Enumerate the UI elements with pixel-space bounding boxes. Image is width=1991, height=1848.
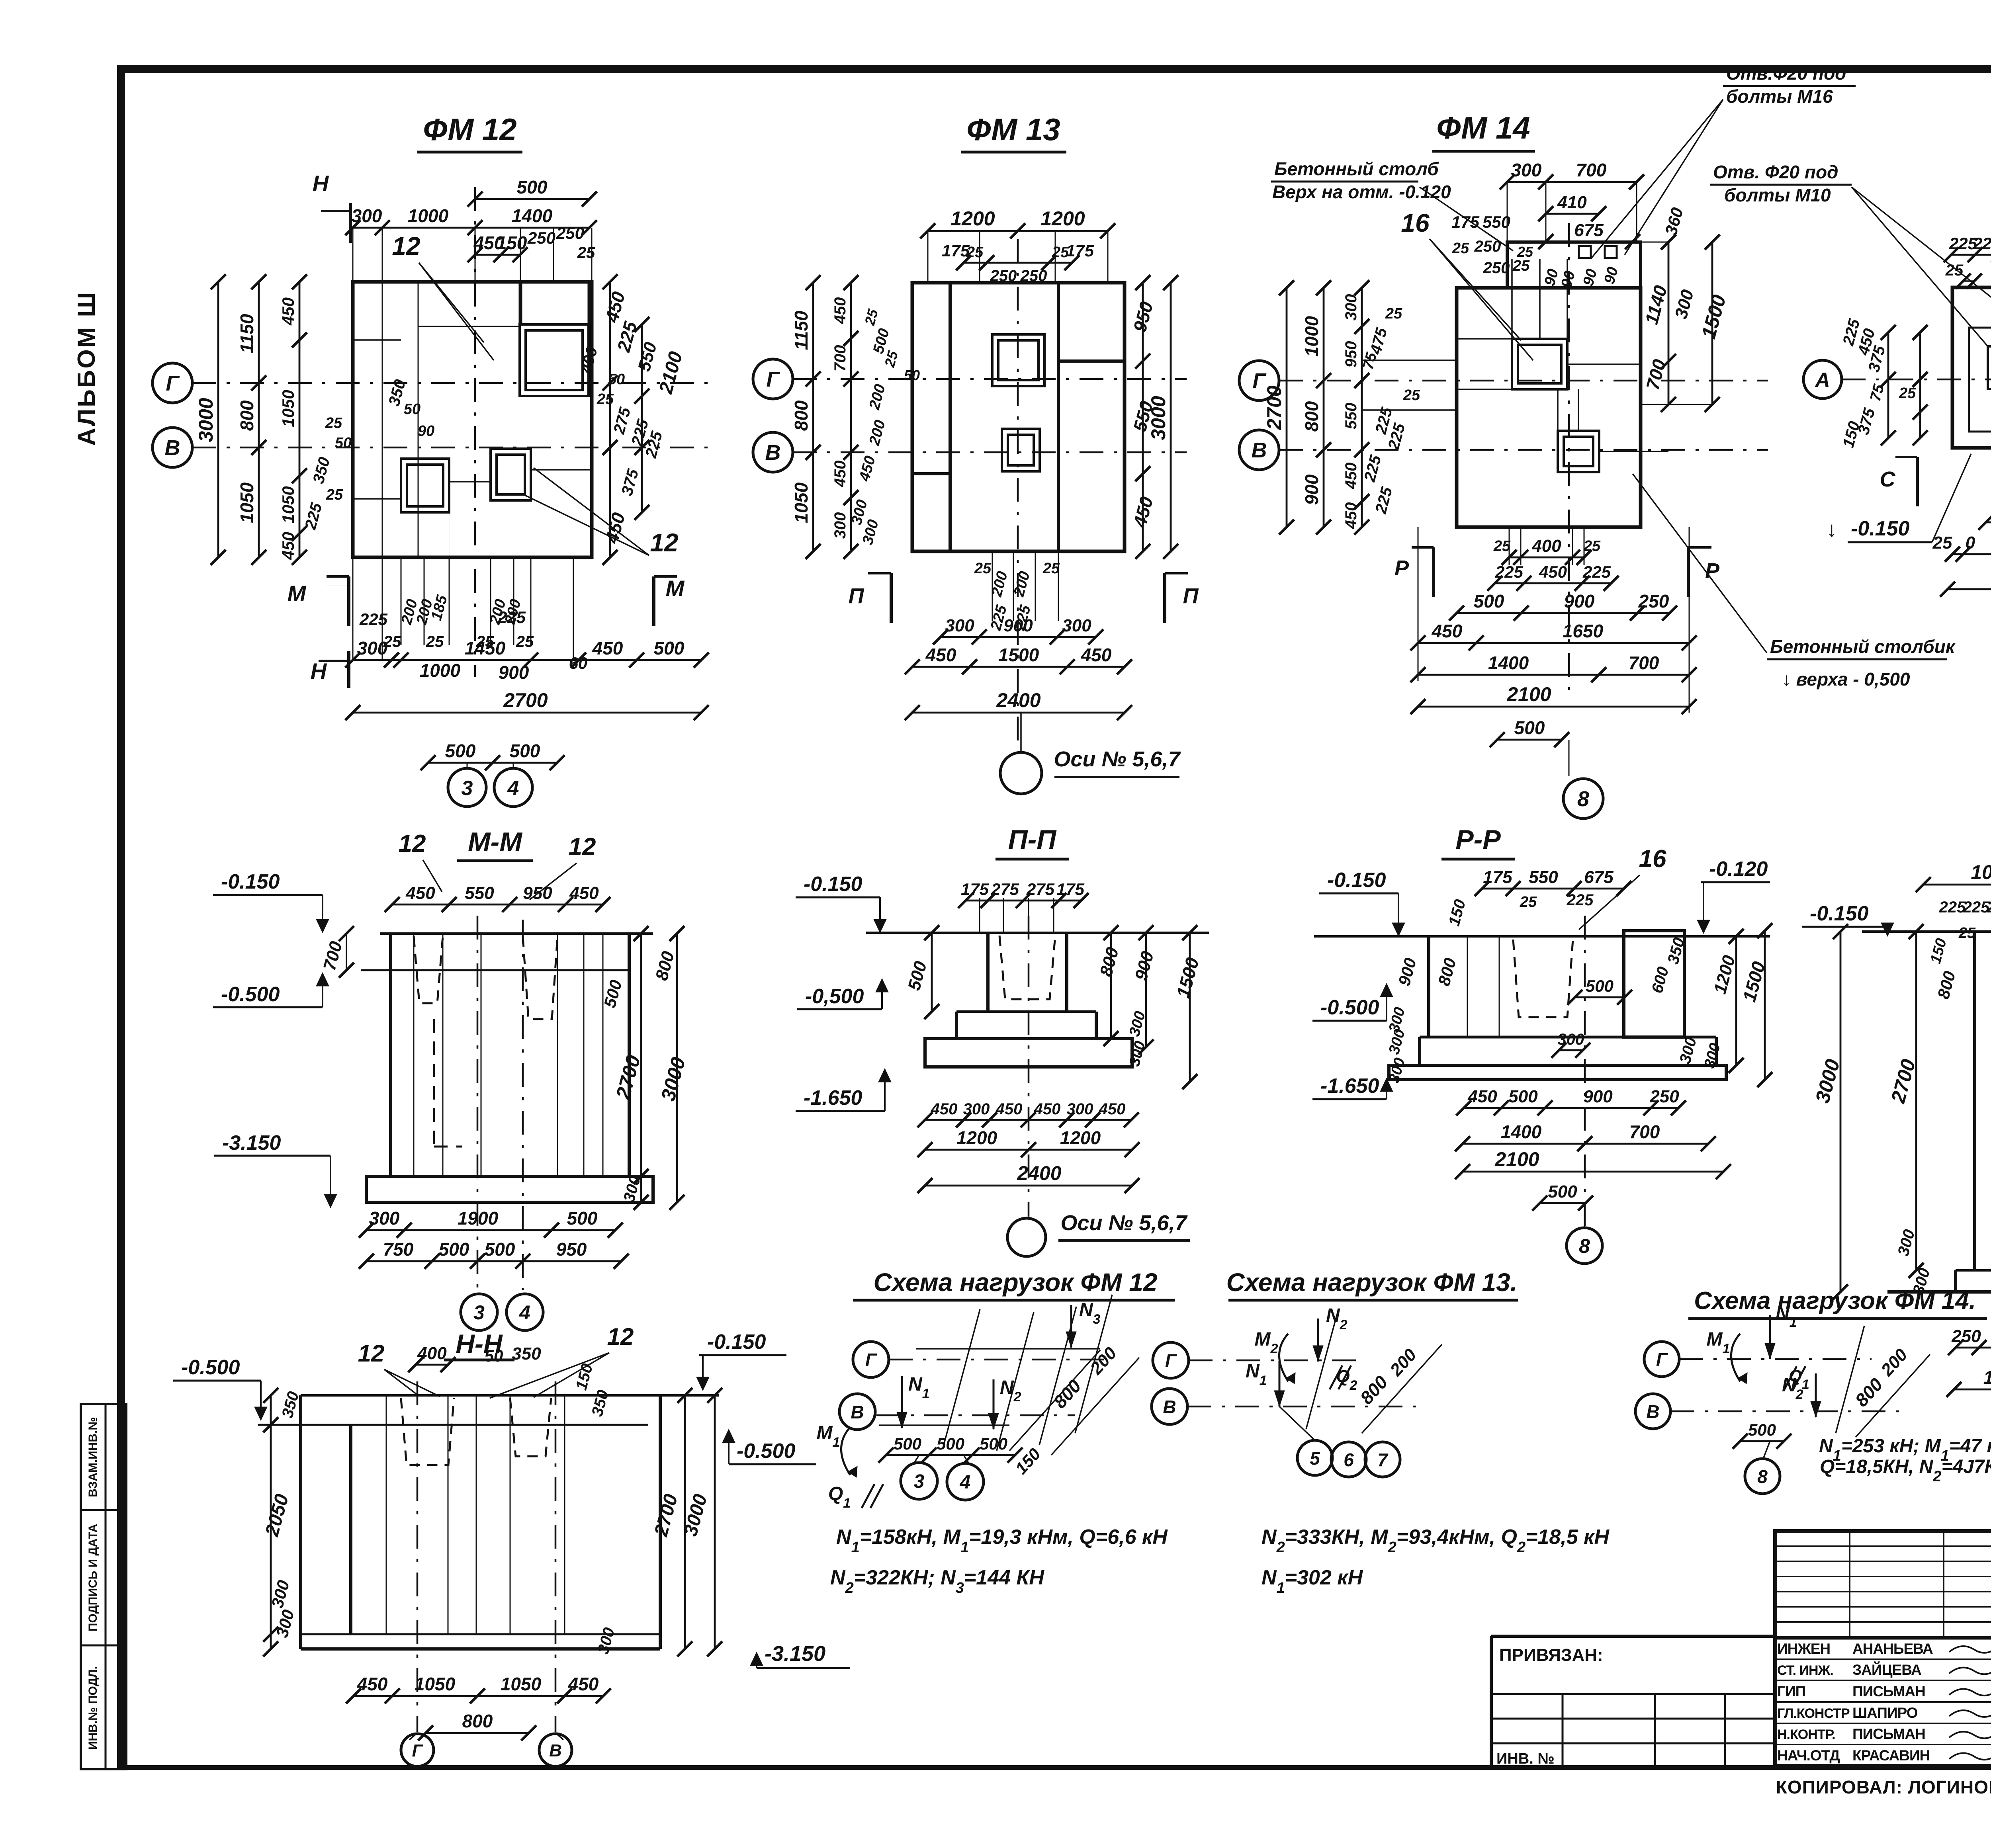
svg-text:ПРИВЯЗАН:: ПРИВЯЗАН:	[1499, 1645, 1603, 1665]
svg-text:800: 800	[237, 400, 257, 431]
svg-text:25: 25	[1403, 387, 1420, 404]
svg-text:250: 250	[1649, 1087, 1679, 1106]
svg-text:275: 275	[991, 880, 1019, 899]
svg-text:1050: 1050	[279, 390, 297, 427]
svg-text:12: 12	[392, 232, 420, 260]
svg-text:ПИСЬМАН: ПИСЬМАН	[1852, 1683, 1925, 1700]
svg-text:-0.150: -0.150	[221, 870, 280, 893]
svg-text:900: 900	[1564, 591, 1595, 611]
svg-text:-1.650: -1.650	[1320, 1074, 1379, 1098]
svg-text:950: 950	[556, 1239, 587, 1260]
svg-text:450: 450	[1034, 1100, 1061, 1118]
svg-text:950: 950	[523, 883, 552, 903]
svg-text:1000: 1000	[408, 205, 449, 226]
svg-text:450: 450	[569, 883, 599, 903]
svg-text:950: 950	[1342, 341, 1360, 368]
svg-text:250: 250	[527, 229, 555, 247]
svg-text:16: 16	[1639, 845, 1666, 873]
svg-text:П: П	[1183, 584, 1199, 608]
svg-text:-0.500: -0.500	[181, 1356, 240, 1379]
svg-text:300: 300	[357, 638, 388, 658]
svg-text:25: 25	[516, 633, 534, 651]
svg-text:175: 175	[942, 241, 970, 260]
svg-text:500: 500	[1748, 1420, 1776, 1439]
svg-text:12: 12	[569, 833, 596, 861]
svg-text:25: 25	[1493, 538, 1511, 555]
svg-text:400: 400	[1531, 536, 1561, 556]
svg-text:А: А	[1814, 369, 1830, 392]
svg-text:450: 450	[931, 1100, 958, 1118]
svg-text:1000: 1000	[1971, 861, 1991, 883]
svg-text:225: 225	[1939, 899, 1966, 916]
svg-text:25: 25	[1517, 244, 1533, 260]
svg-text:225: 225	[359, 610, 388, 629]
svg-text:1050: 1050	[501, 1674, 542, 1694]
svg-text:В: В	[1163, 1397, 1176, 1417]
svg-text:Схема нагрузок ФМ 14.: Схема нагрузок ФМ 14.	[1694, 1287, 1976, 1315]
svg-text:800: 800	[1301, 401, 1322, 432]
svg-text:90: 90	[418, 423, 434, 440]
svg-text:АЛЬБОМ Ш: АЛЬБОМ Ш	[73, 291, 100, 446]
svg-text:25: 25	[974, 560, 992, 577]
svg-text:700: 700	[1629, 1121, 1660, 1142]
svg-text:Г: Г	[1165, 1350, 1177, 1371]
svg-text:ГИП: ГИП	[1777, 1683, 1805, 1700]
svg-text:250: 250	[1020, 267, 1047, 285]
svg-text:25: 25	[1385, 305, 1402, 322]
svg-text:500: 500	[439, 1239, 469, 1260]
svg-text:25: 25	[1512, 258, 1530, 274]
svg-text:КРАСАВИН: КРАСАВИН	[1852, 1747, 1930, 1764]
svg-text:1200: 1200	[956, 1127, 997, 1148]
svg-text:50: 50	[404, 401, 420, 418]
svg-text:675: 675	[1574, 221, 1604, 240]
svg-text:1000: 1000	[1301, 316, 1322, 357]
svg-text:3: 3	[914, 1471, 925, 1492]
svg-text:175: 175	[1066, 241, 1094, 260]
svg-text:225: 225	[1987, 899, 1991, 916]
svg-text:ВЗАМ.ИНВ.№: ВЗАМ.ИНВ.№	[86, 1417, 100, 1497]
svg-text:-1.650: -1.650	[804, 1086, 863, 1110]
svg-text:700: 700	[1629, 652, 1659, 673]
svg-text:450: 450	[995, 1100, 1023, 1118]
svg-text:500: 500	[1514, 717, 1545, 738]
svg-text:В: В	[765, 441, 781, 465]
svg-text:1400: 1400	[1488, 652, 1529, 673]
svg-text:410: 410	[1557, 193, 1587, 212]
svg-text:3: 3	[473, 1301, 485, 1324]
svg-text:150: 150	[497, 232, 527, 253]
svg-text:300: 300	[369, 1208, 400, 1229]
svg-text:-0.150: -0.150	[1810, 902, 1869, 925]
svg-text:225: 225	[1495, 563, 1524, 581]
svg-text:3000: 3000	[195, 398, 217, 442]
svg-text:550: 550	[465, 883, 494, 903]
svg-text:25: 25	[1583, 538, 1601, 555]
svg-text:2400: 2400	[996, 689, 1040, 711]
svg-text:Р-Р: Р-Р	[1455, 824, 1501, 855]
svg-text:АНАНЬЕВА: АНАНЬЕВА	[1852, 1641, 1933, 1657]
svg-text:50: 50	[608, 371, 625, 388]
svg-text:В: В	[1646, 1401, 1659, 1422]
svg-text:2700: 2700	[503, 689, 548, 711]
svg-text:250: 250	[1474, 238, 1501, 255]
svg-text:ИНВ.№ ПОДЛ.: ИНВ.№ ПОДЛ.	[86, 1666, 100, 1750]
svg-text:1200: 1200	[1060, 1127, 1101, 1148]
svg-text:250: 250	[990, 267, 1017, 285]
svg-text:-0.500: -0.500	[737, 1440, 796, 1463]
svg-text:450: 450	[1432, 621, 1463, 641]
svg-text:ФМ 12: ФМ 12	[423, 112, 516, 147]
svg-text:800: 800	[791, 400, 812, 431]
svg-text:1400: 1400	[512, 205, 553, 226]
svg-text:25: 25	[597, 391, 614, 408]
svg-text:8: 8	[1579, 1235, 1590, 1257]
svg-text:12: 12	[399, 830, 426, 858]
svg-text:450: 450	[925, 645, 956, 665]
svg-text:1200: 1200	[951, 207, 995, 230]
svg-text:25: 25	[326, 486, 343, 503]
svg-text:-0,500: -0,500	[805, 985, 864, 1008]
svg-text:Бетонный столб: Бетонный столб	[1274, 158, 1439, 179]
svg-text:450: 450	[405, 883, 435, 903]
svg-text:400: 400	[417, 1344, 447, 1363]
svg-text:500: 500	[1548, 1182, 1577, 1201]
svg-text:50: 50	[485, 1346, 503, 1365]
svg-text:700: 700	[831, 345, 849, 372]
svg-text:500: 500	[517, 177, 548, 197]
svg-text:500: 500	[937, 1434, 964, 1453]
svg-text:25: 25	[1899, 385, 1916, 402]
svg-text:Г: Г	[412, 1741, 423, 1760]
svg-text:7: 7	[1377, 1449, 1389, 1470]
svg-text:450: 450	[831, 461, 849, 488]
svg-text:25: 25	[1042, 560, 1060, 577]
svg-text:-0.500: -0.500	[1320, 996, 1379, 1019]
svg-text:В: В	[165, 436, 180, 460]
svg-text:500: 500	[654, 638, 685, 658]
svg-text:450: 450	[568, 1674, 599, 1694]
svg-text:-0.150: -0.150	[804, 873, 863, 896]
svg-text:500: 500	[445, 740, 476, 761]
svg-text:С: С	[1880, 467, 1896, 491]
svg-text:750: 750	[383, 1239, 414, 1260]
svg-text:-0.120: -0.120	[1709, 858, 1768, 881]
svg-text:-0.150: -0.150	[1327, 869, 1386, 892]
svg-text:Р: Р	[1394, 556, 1409, 580]
svg-text:250: 250	[556, 224, 584, 242]
svg-text:500: 500	[485, 1239, 515, 1260]
svg-text:КОПИРОВАЛ: ЛОГИНОВА: КОПИРОВАЛ: ЛОГИНОВА	[1776, 1777, 1991, 1797]
svg-text:250: 250	[1638, 591, 1669, 611]
svg-text:П: П	[849, 584, 864, 608]
svg-text:900: 900	[1583, 1087, 1613, 1106]
svg-text:1450: 1450	[465, 638, 506, 658]
svg-text:550: 550	[1529, 867, 1558, 887]
svg-text:-0.500: -0.500	[221, 983, 280, 1006]
svg-text:СТ. ИНЖ.: СТ. ИНЖ.	[1777, 1663, 1833, 1678]
svg-text:500: 500	[980, 1434, 1007, 1453]
svg-text:300: 300	[352, 205, 382, 226]
svg-text:500: 500	[1586, 977, 1614, 995]
svg-text:Н: Н	[311, 658, 327, 684]
svg-text:Схема нагрузок ФМ 12: Схема нагрузок ФМ 12	[874, 1268, 1158, 1297]
svg-text:450: 450	[1099, 1100, 1126, 1118]
svg-text:1150: 1150	[791, 311, 812, 350]
svg-text:300: 300	[1067, 1100, 1093, 1118]
svg-text:↓ верха - 0,500: ↓ верха - 0,500	[1782, 669, 1910, 690]
svg-text:Г: Г	[1656, 1349, 1668, 1370]
svg-text:25: 25	[1932, 533, 1952, 553]
svg-text:50: 50	[904, 367, 920, 383]
svg-text:300: 300	[963, 1100, 990, 1118]
svg-text:300: 300	[945, 616, 974, 635]
svg-text:25: 25	[1945, 262, 1964, 279]
svg-text:450: 450	[1342, 502, 1360, 529]
svg-text:Н: Н	[313, 171, 329, 196]
svg-text:175: 175	[1451, 213, 1480, 231]
svg-text:900: 900	[1003, 616, 1033, 635]
svg-text:1050: 1050	[237, 482, 257, 523]
svg-text:3: 3	[462, 777, 473, 800]
svg-text:675: 675	[1584, 867, 1614, 887]
svg-text:П-П: П-П	[1008, 824, 1057, 855]
svg-text:В: В	[1252, 438, 1267, 462]
svg-text:500: 500	[1508, 1087, 1538, 1106]
svg-text:1500: 1500	[998, 645, 1039, 665]
svg-text:Верх на отм. -0.120: Верх на отм. -0.120	[1272, 182, 1451, 202]
svg-text:225: 225	[497, 608, 526, 627]
svg-text:ПИСЬМАН: ПИСЬМАН	[1852, 1726, 1925, 1742]
svg-text:ПОДПИСЬ И ДАТА: ПОДПИСЬ И ДАТА	[86, 1524, 100, 1631]
svg-text:225: 225	[1963, 899, 1990, 916]
svg-text:225: 225	[1582, 563, 1611, 581]
svg-text:4: 4	[507, 777, 519, 800]
svg-text:300: 300	[1062, 616, 1091, 635]
svg-text:12: 12	[358, 1340, 385, 1367]
svg-text:ГЛ.КОНСТР: ГЛ.КОНСТР	[1777, 1706, 1850, 1721]
svg-text:300: 300	[1511, 160, 1542, 180]
svg-text:-3.150: -3.150	[765, 1642, 825, 1666]
svg-text:250: 250	[1483, 259, 1510, 277]
svg-text:2700: 2700	[1263, 385, 1285, 430]
svg-text:800: 800	[462, 1711, 493, 1731]
svg-text:25: 25	[577, 244, 595, 262]
svg-text:275: 275	[1026, 880, 1055, 899]
svg-text:2100: 2100	[1494, 1148, 1539, 1170]
svg-text:1000: 1000	[420, 660, 461, 681]
svg-text:ИНЖЕН: ИНЖЕН	[1777, 1641, 1830, 1657]
svg-text:1050: 1050	[791, 482, 812, 523]
svg-text:8: 8	[1577, 787, 1589, 811]
svg-text:225: 225	[1567, 891, 1594, 909]
svg-text:М: М	[288, 581, 307, 606]
svg-text:М-М: М-М	[468, 827, 522, 857]
svg-text:1200: 1200	[1040, 207, 1085, 230]
svg-text:175: 175	[1056, 880, 1085, 899]
svg-text:0: 0	[1966, 533, 1975, 553]
svg-text:ФМ 13: ФМ 13	[966, 112, 1060, 147]
svg-text:175: 175	[961, 880, 989, 899]
svg-text:250: 250	[1951, 1326, 1981, 1346]
svg-text:25: 25	[325, 415, 342, 432]
svg-text:300: 300	[831, 512, 849, 539]
svg-text:450: 450	[1539, 563, 1567, 581]
svg-text:Оси № 5,6,7: Оси № 5,6,7	[1054, 747, 1181, 771]
svg-text:450: 450	[592, 638, 623, 658]
svg-text:450: 450	[279, 297, 297, 326]
svg-text:ФМ 14: ФМ 14	[1436, 110, 1530, 145]
svg-text:450: 450	[1467, 1087, 1497, 1106]
svg-text:В: В	[851, 1402, 864, 1422]
svg-text:450: 450	[1342, 463, 1360, 490]
svg-text:300: 300	[1342, 294, 1360, 321]
svg-text:ЗАЙЦЕВА: ЗАЙЦЕВА	[1852, 1661, 1921, 1678]
svg-text:60: 60	[569, 654, 588, 672]
svg-text:900: 900	[1301, 474, 1322, 505]
svg-text:В: В	[549, 1741, 562, 1760]
svg-text:4: 4	[960, 1472, 971, 1493]
svg-text:НАЧ.ОТД: НАЧ.ОТД	[1777, 1747, 1840, 1764]
svg-text:1400: 1400	[1501, 1121, 1542, 1142]
svg-text:4: 4	[519, 1301, 530, 1324]
svg-text:болты М10: болты М10	[1724, 185, 1831, 205]
svg-text:50: 50	[335, 435, 352, 451]
svg-text:12: 12	[650, 528, 678, 557]
svg-text:500: 500	[567, 1208, 598, 1229]
svg-text:Отв.Ф20 под: Отв.Ф20 под	[1726, 63, 1846, 84]
svg-text:-3.150: -3.150	[222, 1131, 281, 1155]
svg-text:1050: 1050	[415, 1674, 456, 1694]
svg-text:25: 25	[426, 633, 444, 651]
svg-text:175: 175	[1483, 867, 1512, 887]
svg-text:225: 225	[1973, 234, 1991, 253]
svg-text:М: М	[666, 576, 685, 601]
svg-text:500: 500	[894, 1434, 921, 1453]
svg-text:ИНВ. №: ИНВ. №	[1496, 1750, 1555, 1767]
svg-text:8: 8	[1757, 1466, 1768, 1487]
svg-text:Г: Г	[766, 367, 780, 391]
svg-text:12: 12	[607, 1323, 634, 1350]
svg-text:25: 25	[1520, 894, 1537, 910]
svg-text:16: 16	[1401, 209, 1430, 237]
svg-text:1150: 1150	[237, 314, 257, 353]
svg-text:550: 550	[1342, 403, 1360, 430]
svg-text:Н.КОНТР.: Н.КОНТР.	[1777, 1727, 1835, 1742]
svg-text:300: 300	[1558, 1031, 1584, 1048]
svg-text:1650: 1650	[1563, 621, 1604, 641]
svg-text:5: 5	[1310, 1448, 1320, 1469]
svg-text:1050: 1050	[279, 486, 297, 523]
svg-text:2100: 2100	[1506, 683, 1551, 705]
svg-text:25: 25	[1452, 240, 1469, 257]
svg-text:ШАПИРО: ШАПИРО	[1852, 1705, 1918, 1721]
svg-text:700: 700	[1576, 160, 1607, 180]
svg-text:450: 450	[279, 532, 297, 560]
svg-text:6: 6	[1344, 1449, 1354, 1470]
svg-text:↓: ↓	[1827, 518, 1837, 541]
svg-text:-0.150: -0.150	[1851, 517, 1910, 540]
svg-text:450: 450	[1081, 645, 1112, 665]
svg-text:1200: 1200	[1983, 1367, 1991, 1388]
svg-text:900: 900	[499, 662, 529, 683]
svg-text:1900: 1900	[458, 1208, 499, 1229]
svg-text:Г: Г	[166, 371, 180, 395]
svg-text:2400: 2400	[1017, 1162, 1061, 1184]
svg-text:450: 450	[357, 1674, 388, 1694]
svg-text:Схема нагрузок ФМ 13.: Схема нагрузок ФМ 13.	[1226, 1268, 1518, 1297]
svg-text:Бетонный столбик: Бетонный столбик	[1770, 636, 1956, 657]
svg-text:3000: 3000	[1147, 396, 1170, 440]
svg-text:450: 450	[831, 297, 849, 324]
svg-text:500: 500	[510, 740, 540, 761]
svg-text:болты М16: болты М16	[1726, 86, 1833, 107]
svg-text:-0.150: -0.150	[707, 1330, 766, 1354]
svg-text:Г: Г	[865, 1350, 877, 1370]
svg-text:Оси № 5,6,7: Оси № 5,6,7	[1060, 1211, 1188, 1235]
svg-text:550: 550	[1482, 213, 1510, 231]
svg-text:500: 500	[1474, 591, 1504, 611]
svg-text:Отв. Ф20 под: Отв. Ф20 под	[1713, 162, 1838, 182]
svg-text:350: 350	[512, 1344, 541, 1364]
